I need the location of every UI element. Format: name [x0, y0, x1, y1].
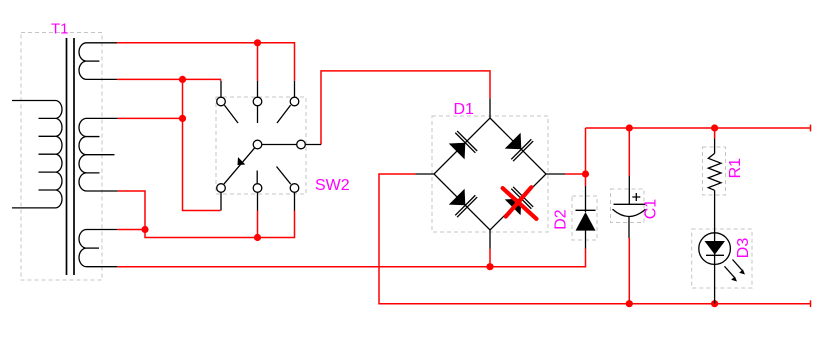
svg-text:R1: R1 — [727, 158, 744, 179]
svg-text:T1: T1 — [51, 21, 69, 38]
svg-text:D3: D3 — [735, 238, 752, 259]
svg-text:D1: D1 — [454, 101, 475, 118]
svg-text:C1: C1 — [643, 199, 660, 220]
svg-text:SW2: SW2 — [315, 177, 350, 194]
svg-text:D2: D2 — [553, 209, 570, 230]
